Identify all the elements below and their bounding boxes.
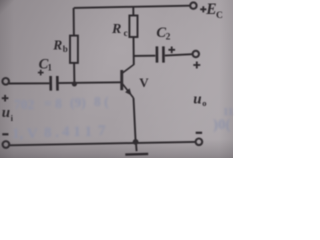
svg-text:2: 2 [166,33,171,43]
svg-text:E: E [205,1,216,18]
svg-text:R: R [52,37,62,52]
svg-text:u: u [193,91,201,107]
svg-text:o: o [202,98,206,108]
svg-text:b: b [63,44,68,54]
svg-text:1: 1 [48,62,53,72]
svg-text:V: V [139,75,149,90]
svg-text:i: i [11,113,14,123]
svg-text:C: C [216,11,223,21]
svg-text:c: c [124,28,128,38]
svg-text:u: u [2,105,10,121]
svg-text:R: R [111,22,121,37]
